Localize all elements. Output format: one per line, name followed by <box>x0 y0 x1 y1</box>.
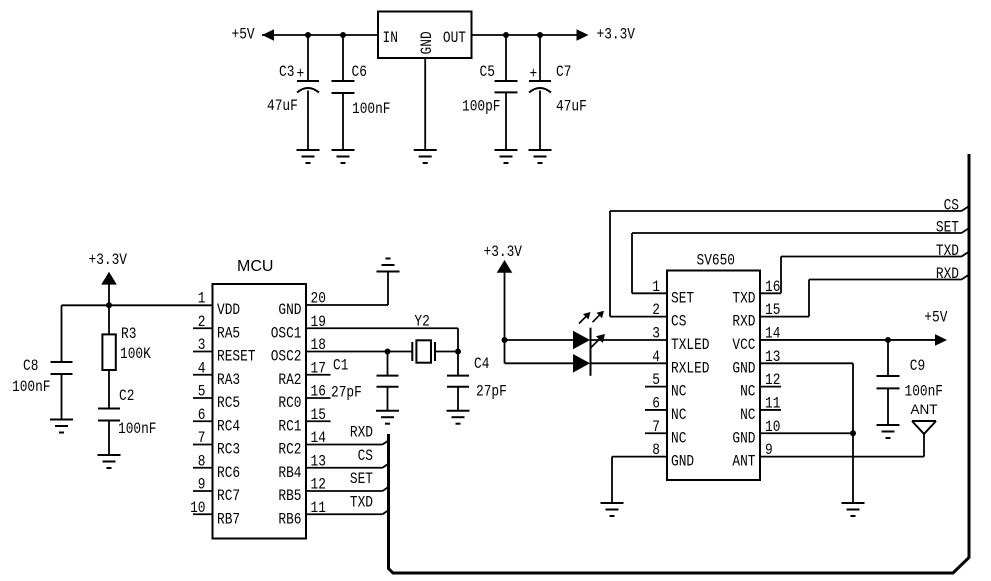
svg-text:GND: GND <box>418 31 436 54</box>
svg-text:C4: C4 <box>474 355 489 373</box>
svg-text:C2: C2 <box>119 387 134 405</box>
svg-text:4: 4 <box>652 348 660 366</box>
svg-text:TXLED: TXLED <box>671 336 710 354</box>
svg-text:Y2: Y2 <box>414 313 429 331</box>
svg-text:VDD: VDD <box>217 301 240 319</box>
svg-text:RESET: RESET <box>217 348 256 366</box>
svg-text:ANT: ANT <box>911 402 938 417</box>
svg-text:RC7: RC7 <box>217 487 240 505</box>
svg-text:C1: C1 <box>333 357 348 375</box>
svg-text:C3: C3 <box>279 63 294 81</box>
svg-text:TXD: TXD <box>732 289 755 307</box>
svg-text:RC6: RC6 <box>217 464 240 482</box>
svg-text:MCU: MCU <box>237 258 273 275</box>
svg-text:R3: R3 <box>121 325 136 343</box>
svg-text:C6: C6 <box>352 63 367 81</box>
svg-text:NC: NC <box>740 383 755 401</box>
svg-text:GND: GND <box>732 359 755 377</box>
svg-text:+5V: +5V <box>232 26 255 44</box>
svg-text:OSC2: OSC2 <box>271 348 302 366</box>
svg-text:CS: CS <box>944 197 959 215</box>
svg-text:27pF: 27pF <box>331 384 362 402</box>
svg-text:27pF: 27pF <box>476 383 507 401</box>
svg-text:SET: SET <box>671 289 694 307</box>
svg-text:NC: NC <box>671 383 686 401</box>
svg-text:100nF: 100nF <box>12 378 51 396</box>
svg-text:TXD: TXD <box>936 242 959 260</box>
svg-text:47uF: 47uF <box>556 98 587 116</box>
svg-text:+3.3V: +3.3V <box>89 251 128 269</box>
svg-text:RB6: RB6 <box>278 510 301 528</box>
svg-text:RXD: RXD <box>936 265 959 283</box>
svg-text:VCC: VCC <box>732 336 755 354</box>
svg-text:OSC1: OSC1 <box>271 324 302 342</box>
svg-text:+5V: +5V <box>924 309 947 327</box>
svg-text:RC5: RC5 <box>217 394 240 412</box>
svg-text:NC: NC <box>671 429 686 447</box>
svg-text:100K: 100K <box>120 345 151 363</box>
svg-text:RXD: RXD <box>350 424 373 442</box>
svg-text:C8: C8 <box>23 357 38 375</box>
svg-text:RC3: RC3 <box>217 441 240 459</box>
svg-text:RXD: RXD <box>732 313 755 331</box>
svg-text:RA5: RA5 <box>217 324 240 342</box>
svg-text:CS: CS <box>671 313 686 331</box>
svg-text:C7: C7 <box>556 63 571 81</box>
svg-text:RB4: RB4 <box>278 464 301 482</box>
svg-text:+: + <box>297 65 305 83</box>
svg-text:47uF: 47uF <box>267 97 298 115</box>
svg-text:100pF: 100pF <box>462 98 501 116</box>
svg-text:100nF: 100nF <box>905 383 944 401</box>
svg-text:+3.3V: +3.3V <box>597 26 636 44</box>
svg-text:CS: CS <box>358 447 373 465</box>
svg-text:RA3: RA3 <box>217 371 240 389</box>
svg-text:SET: SET <box>936 219 959 237</box>
svg-text:GND: GND <box>671 453 694 471</box>
svg-text:GND: GND <box>732 429 755 447</box>
svg-text:NC: NC <box>740 406 755 424</box>
svg-text:ANT: ANT <box>732 453 755 471</box>
svg-text:100nF: 100nF <box>118 420 157 438</box>
svg-text:1: 1 <box>198 290 206 308</box>
svg-text:SV650: SV650 <box>697 252 736 270</box>
svg-text:GND: GND <box>278 301 301 319</box>
svg-text:RC0: RC0 <box>278 394 301 412</box>
svg-text:OUT: OUT <box>443 29 466 47</box>
svg-text:3: 3 <box>652 324 660 342</box>
svg-text:+3.3V: +3.3V <box>484 243 523 261</box>
svg-text:RC1: RC1 <box>278 417 301 435</box>
svg-text:NC: NC <box>671 406 686 424</box>
svg-text:RC4: RC4 <box>217 417 240 435</box>
svg-text:+: + <box>530 65 538 83</box>
svg-text:TXD: TXD <box>350 493 373 511</box>
svg-text:RC2: RC2 <box>278 441 301 459</box>
svg-text:IN: IN <box>383 29 398 47</box>
svg-text:RA2: RA2 <box>278 371 301 389</box>
svg-text:C9: C9 <box>910 357 925 375</box>
svg-text:RXLED: RXLED <box>671 359 710 377</box>
svg-text:RB7: RB7 <box>217 510 240 528</box>
svg-text:SET: SET <box>350 470 373 488</box>
svg-text:100nF: 100nF <box>352 100 391 118</box>
svg-text:C5: C5 <box>480 63 495 81</box>
svg-text:RB5: RB5 <box>278 487 301 505</box>
